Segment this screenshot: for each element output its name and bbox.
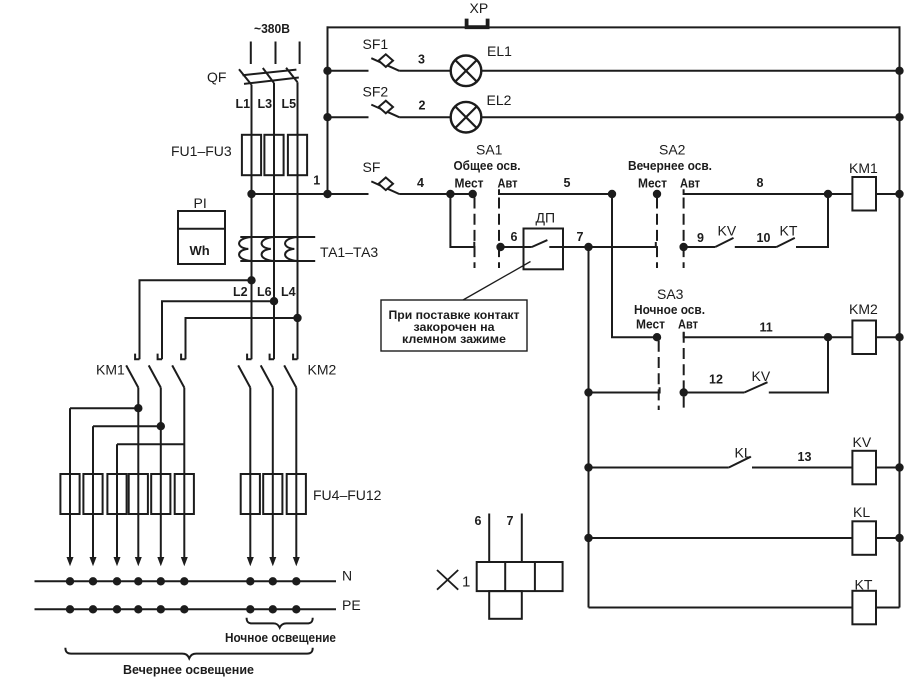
wire terminal 6 bbox=[488, 514, 490, 563]
bus PE bbox=[35, 608, 337, 610]
feeder arrow 9 bbox=[295, 514, 297, 558]
selector switch SA1 (Общее осв.) bbox=[446, 142, 520, 269]
svg-text:KV: KV bbox=[718, 223, 737, 239]
svg-text:Ночное освещение: Ночное освещение bbox=[225, 631, 336, 645]
wire supply stub L1 bbox=[250, 42, 252, 65]
svg-text:L3: L3 bbox=[258, 97, 273, 111]
wire phase L5 vertical bbox=[297, 82, 299, 359]
svg-text:1: 1 bbox=[462, 574, 470, 591]
junction dot wire 11 bbox=[824, 333, 832, 341]
dashed linkage SA1 Авт bbox=[498, 198, 500, 269]
wire right bus bbox=[899, 26, 901, 607]
junction dot SA1 left bbox=[446, 190, 454, 198]
selector switch SA3 (Ночное осв.) bbox=[634, 286, 705, 410]
svg-text:KL: KL bbox=[853, 504, 870, 520]
svg-text:7: 7 bbox=[577, 230, 584, 244]
wire SA1 Мест lower bypass bbox=[450, 194, 474, 247]
wire 2 bbox=[399, 116, 451, 118]
svg-text:KM1: KM1 bbox=[849, 160, 878, 176]
circuit breaker QF bbox=[207, 68, 299, 85]
svg-text:L5: L5 bbox=[282, 97, 297, 111]
svg-text:KV: KV bbox=[853, 434, 872, 450]
fuse FU10 bbox=[241, 474, 260, 514]
wire left bus to SF2 bbox=[328, 116, 369, 118]
bus N bbox=[35, 580, 337, 582]
junction dot SA2 Авт lower (node 9) bbox=[679, 243, 687, 251]
fuse FU2 bbox=[264, 135, 283, 175]
junction dot SA1 Мест bbox=[469, 190, 477, 198]
wire control bus (node 7 down) bbox=[588, 247, 590, 608]
fuse FU3 bbox=[288, 135, 307, 175]
contact KL (wire 13) bbox=[589, 445, 853, 468]
dashed linkage SA2 Мест bbox=[656, 198, 658, 269]
wire node 5 riser to SA3 bbox=[612, 194, 657, 337]
switch SF bbox=[363, 159, 400, 194]
current transformers TA1-TA3 bbox=[239, 237, 378, 261]
svg-text:SF2: SF2 bbox=[363, 83, 389, 99]
svg-text:ТА1–ТА3: ТА1–ТА3 bbox=[320, 244, 378, 260]
wire left bus (node 1 riser) bbox=[327, 26, 329, 194]
wire phase L3 vertical bbox=[273, 83, 275, 359]
svg-text:KT: KT bbox=[780, 223, 798, 239]
feeder arrow 8 bbox=[272, 514, 274, 558]
junction dot KM1 pole 1 bbox=[134, 404, 142, 412]
junction dot L4 branch bbox=[293, 314, 301, 322]
svg-text:2: 2 bbox=[419, 99, 426, 113]
fuse FU4 bbox=[60, 474, 79, 514]
fuse FU11 bbox=[263, 474, 282, 514]
wire branch L6 to KM1 pole 2 bbox=[162, 301, 274, 359]
junction dot KV row on control bus bbox=[584, 463, 592, 471]
svg-text:1: 1 bbox=[313, 174, 320, 188]
contactor KM2 main contacts (3 poles) bbox=[238, 354, 336, 388]
wire node 7 to SA2 Мест bbox=[589, 242, 656, 247]
junction dot node 7 bbox=[584, 243, 592, 251]
wire KM1 pole 1 output with branch to FU4 column bbox=[137, 388, 139, 474]
svg-text:6: 6 bbox=[511, 230, 518, 244]
svg-text:XP: XP bbox=[470, 0, 489, 16]
lamp EL2 bbox=[451, 92, 512, 133]
svg-text:~380В: ~380В bbox=[254, 22, 290, 36]
dashed linkage SA3 Авт bbox=[683, 332, 685, 410]
wire KV to KM2 coil branch bbox=[769, 337, 828, 392]
X1 terminal row bbox=[477, 562, 563, 591]
junction dot node 1 on left bus bbox=[323, 190, 331, 198]
wire KM2 pole outputs to fuses bbox=[249, 388, 251, 474]
fuse FU7 bbox=[129, 474, 148, 514]
wire 8 (SA2 Авт to KM1 coil) bbox=[684, 189, 828, 194]
junction dots on bus PE bbox=[66, 605, 74, 613]
svg-text:Ночное осв.: Ночное осв. bbox=[634, 303, 705, 317]
junction dot KM1 pole 2 bbox=[157, 422, 165, 430]
svg-text:11: 11 bbox=[760, 321, 773, 335]
junction dot SA1 Авт lower (node 6) bbox=[496, 243, 504, 251]
X1 lower cell bbox=[489, 591, 522, 619]
junction dot EL2 row on left bus bbox=[323, 113, 331, 121]
svg-text:EL2: EL2 bbox=[487, 92, 512, 108]
dashed linkage SA2 Авт bbox=[683, 198, 685, 269]
coil KM2 bbox=[828, 301, 900, 354]
wire control bus to SA3 Мест lower bbox=[589, 387, 660, 392]
selector switch SA2 (Вечернее осв.) bbox=[628, 142, 712, 269]
terminal block X1 bbox=[437, 514, 563, 619]
svg-text:13: 13 bbox=[798, 450, 812, 464]
svg-text:L6: L6 bbox=[257, 285, 272, 299]
svg-text:Авт: Авт bbox=[680, 176, 700, 190]
svg-text:PI: PI bbox=[194, 195, 207, 211]
junction dot L2 branch bbox=[247, 276, 255, 284]
wire KT to KM1 coil branch bbox=[796, 194, 828, 247]
svg-text:Мест: Мест bbox=[455, 176, 484, 190]
wire 11 (SA3 Авт to KM2 coil) bbox=[684, 332, 828, 337]
svg-text:L4: L4 bbox=[281, 285, 296, 299]
svg-text:Wh: Wh bbox=[190, 243, 210, 258]
feeder arrow 7 bbox=[249, 514, 251, 558]
wire 5 (SA1 Авт to SA2) bbox=[499, 189, 612, 194]
junction dot KL row on control bus bbox=[584, 534, 592, 542]
junction dot EL2 row on right bus bbox=[895, 113, 903, 121]
svg-text:8: 8 bbox=[757, 176, 764, 190]
junction dot EL1 row on right bus bbox=[895, 67, 903, 75]
wire left bus to SF1 bbox=[328, 70, 369, 72]
svg-text:7: 7 bbox=[507, 514, 514, 528]
junction dot EL1 row on left bus bbox=[323, 67, 331, 75]
svg-text:Мест: Мест bbox=[638, 176, 667, 190]
svg-text:9: 9 bbox=[697, 231, 704, 245]
svg-text:12: 12 bbox=[709, 373, 723, 387]
X1 designator cross bbox=[437, 570, 458, 590]
wire branch L2 to KM1 pole 1 bbox=[140, 280, 252, 359]
coil KL bbox=[852, 504, 899, 555]
coil KM1 bbox=[828, 160, 900, 211]
wire 3 bbox=[399, 70, 451, 72]
feeder arrow 6 bbox=[183, 514, 185, 558]
switch SF1 bbox=[363, 36, 400, 71]
door contact ДП bbox=[501, 210, 589, 270]
fuse FU12 bbox=[287, 474, 306, 514]
dashed linkage SA3 Мест bbox=[658, 341, 660, 410]
junction dot wire 8 bbox=[824, 190, 832, 198]
wire supply stub L3 bbox=[275, 42, 277, 65]
feeder arrow 5 bbox=[160, 514, 162, 558]
wire terminal 7 bbox=[521, 514, 523, 563]
svg-text:KV: KV bbox=[752, 368, 771, 384]
fuse FU5 bbox=[83, 474, 102, 514]
wire branch L4 to KM1 pole 3 bbox=[186, 318, 298, 359]
junction dot node 1 on phase L1 bbox=[247, 190, 255, 198]
svg-text:SA1: SA1 bbox=[476, 142, 503, 158]
junction dot SA3 Мест bbox=[653, 333, 661, 341]
connector XP bbox=[467, 0, 489, 27]
svg-text:ДП: ДП bbox=[536, 210, 556, 226]
svg-text:5: 5 bbox=[564, 176, 571, 190]
svg-text:SA3: SA3 bbox=[657, 286, 684, 302]
svg-text:N: N bbox=[342, 568, 352, 584]
svg-text:FU4–FU12: FU4–FU12 bbox=[313, 487, 382, 503]
wire phase L1 vertical bbox=[251, 85, 253, 360]
wire supply stub L5 bbox=[299, 42, 301, 65]
fuse FU9 bbox=[175, 474, 194, 514]
wire top bus bbox=[327, 26, 901, 28]
fuse FU6 bbox=[107, 474, 126, 514]
junction dot node 5 bbox=[608, 190, 616, 198]
lamp EL1 bbox=[451, 43, 512, 86]
fuse FU8 bbox=[151, 474, 170, 514]
svg-text:SA2: SA2 bbox=[659, 142, 686, 158]
kWh meter PI bbox=[178, 195, 225, 264]
junction dots on bus N bbox=[66, 577, 74, 585]
svg-text:Вечернее освещение: Вечернее освещение bbox=[123, 663, 254, 677]
wire ДП to node 7 bbox=[549, 246, 588, 248]
note box (При поставке контакт закорочен на клемном зажиме) bbox=[381, 262, 531, 352]
junction dot KM1 row on right bus bbox=[895, 190, 903, 198]
svg-text:EL1: EL1 bbox=[487, 43, 512, 59]
svg-text:QF: QF bbox=[207, 69, 226, 85]
switch SF2 bbox=[363, 83, 400, 117]
wire KM1 pole 3 output with branch to FU6 column bbox=[183, 388, 185, 474]
coil KV bbox=[852, 434, 899, 484]
feeder arrow 1 bbox=[69, 514, 71, 558]
wire EL2 to right bus bbox=[481, 116, 899, 118]
svg-text:FU1–FU3: FU1–FU3 bbox=[171, 143, 232, 159]
svg-text:6: 6 bbox=[475, 514, 482, 528]
svg-text:3: 3 bbox=[418, 53, 425, 67]
svg-text:SF: SF bbox=[363, 159, 381, 175]
svg-text:Общее осв.: Общее осв. bbox=[454, 159, 521, 173]
junction dot SA3 Авт lower (node 12) bbox=[680, 388, 688, 396]
svg-text:Авт: Авт bbox=[678, 318, 698, 332]
contactor KM1 main contacts (3 poles) bbox=[96, 354, 186, 388]
svg-text:KM2: KM2 bbox=[849, 301, 878, 317]
wire 4 bbox=[399, 193, 450, 195]
svg-text:4: 4 bbox=[417, 176, 424, 190]
contact KT (wire 10) bbox=[735, 223, 798, 248]
svg-text:Авт: Авт bbox=[498, 176, 518, 190]
svg-text:Вечернее осв.: Вечернее осв. bbox=[628, 159, 712, 173]
junction dot L6 branch bbox=[270, 297, 278, 305]
feeder arrow 2 bbox=[92, 514, 94, 558]
contact KV (wire 12) bbox=[684, 368, 771, 393]
svg-text:PE: PE bbox=[342, 597, 361, 613]
wire node 6 to ДП bbox=[501, 246, 532, 248]
junction dot KL row on right bus bbox=[895, 534, 903, 542]
wire EL1 to right bus bbox=[481, 70, 899, 72]
feeder arrow 4 bbox=[137, 514, 139, 558]
fuse FU1 bbox=[242, 135, 261, 175]
node 1 wire (phase L1 tap to control circuit) bbox=[252, 193, 369, 195]
feeder arrow 3 bbox=[116, 514, 118, 558]
junction dot KM2 row on right bus bbox=[895, 333, 903, 341]
svg-text:клемном зажиме: клемном зажиме bbox=[402, 332, 506, 346]
brace evening lighting group bbox=[65, 648, 312, 659]
svg-text:L1: L1 bbox=[236, 97, 251, 111]
brace night lighting group bbox=[247, 618, 313, 628]
note leader line bbox=[463, 262, 531, 301]
junction dot SA2 Мест bbox=[653, 190, 661, 198]
wire KM1 pole 2 output with branch to FU5 column bbox=[160, 388, 162, 474]
dashed linkage SA1 Мест bbox=[474, 198, 476, 269]
svg-text:10: 10 bbox=[757, 231, 771, 245]
junction dot row 12 on control bus bbox=[584, 388, 592, 396]
wire control bus to KT coil bbox=[589, 607, 853, 609]
contact KV (wire 9-10) bbox=[684, 223, 737, 248]
junction dot KV row on right bus bbox=[895, 463, 903, 471]
svg-text:Мест: Мест bbox=[636, 318, 665, 332]
svg-text:SF1: SF1 bbox=[363, 36, 389, 52]
coil KT bbox=[852, 577, 899, 625]
svg-text:KM2: KM2 bbox=[308, 362, 337, 378]
wire SA1 Мест fixed segment bbox=[450, 193, 472, 195]
ДП contact blade bbox=[532, 240, 548, 247]
svg-text:KM1: KM1 bbox=[96, 362, 125, 378]
svg-text:L2: L2 bbox=[233, 285, 248, 299]
wire control bus to KL coil bbox=[589, 537, 853, 539]
